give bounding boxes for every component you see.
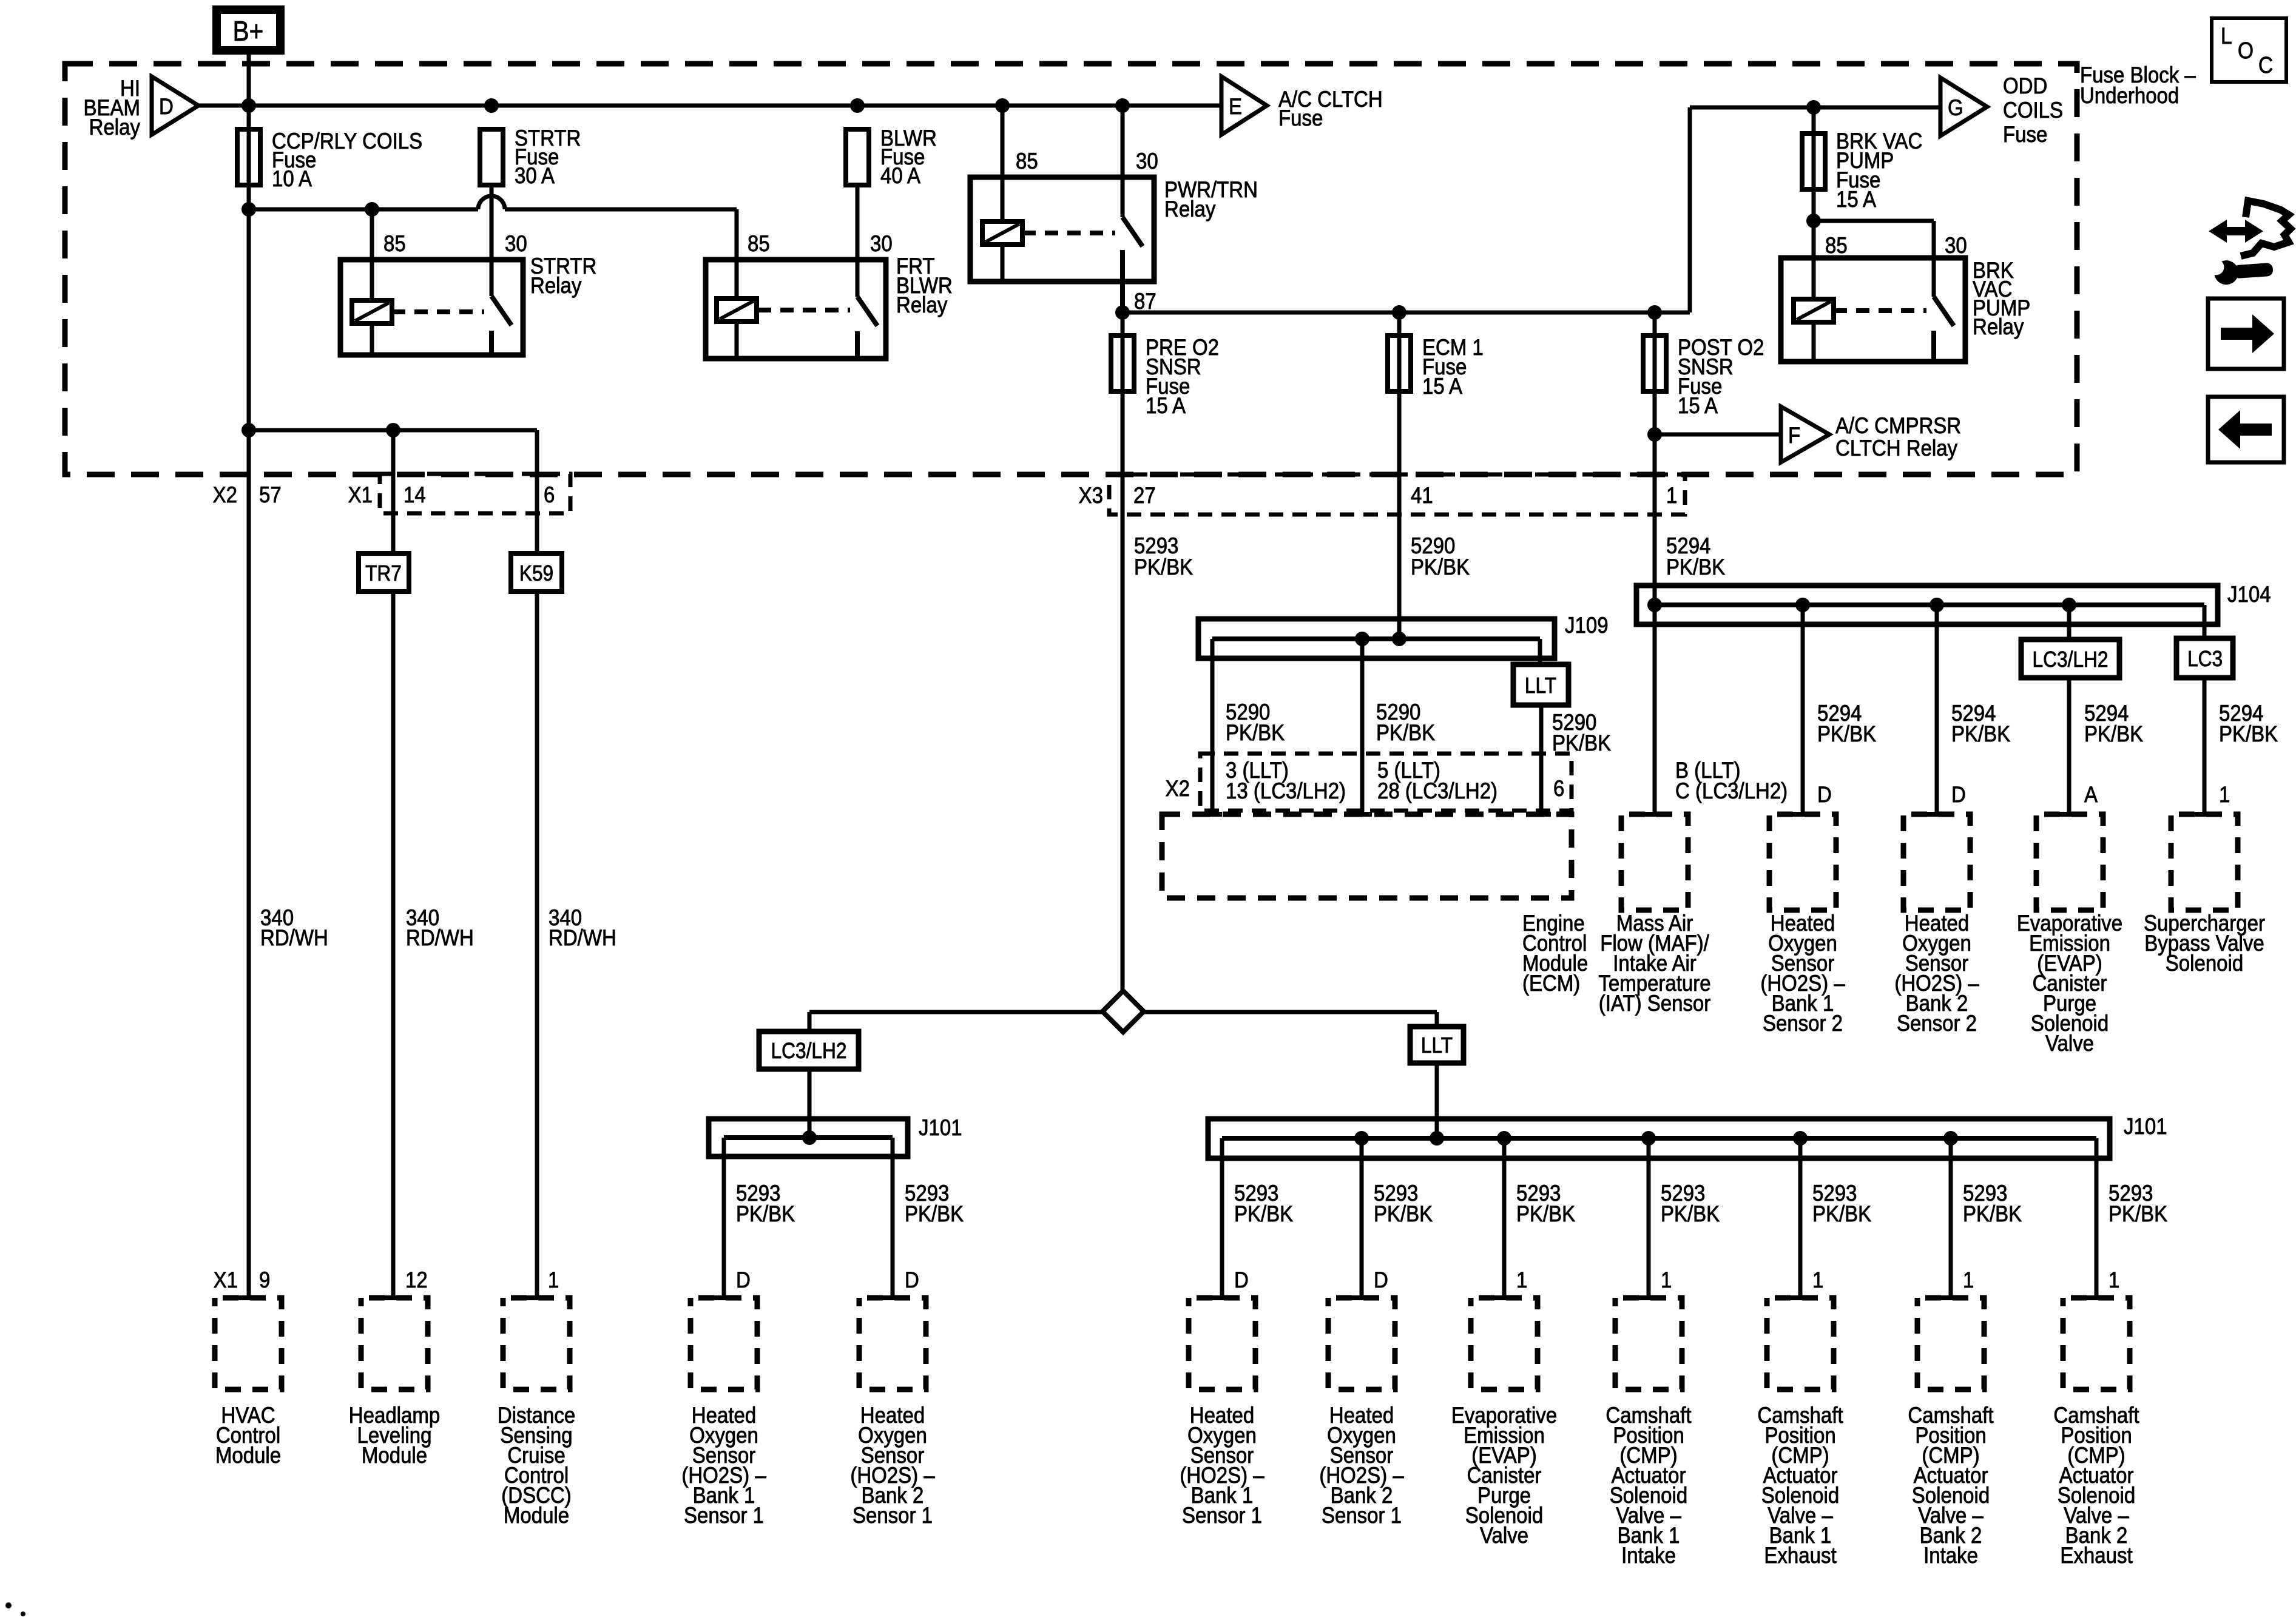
relay STRTR switch (490, 185, 494, 296)
svg-text:PK/BK: PK/BK (1376, 720, 1436, 745)
node J101R LLT feed (1430, 1131, 1444, 1146)
svg-text:Module: Module (504, 1503, 569, 1528)
icon arrow left box (2208, 397, 2284, 462)
connector box bottom col 2967 (1791, 1295, 1810, 1300)
svg-text:PK/BK: PK/BK (2084, 721, 2144, 746)
svg-text:Relay: Relay (1164, 197, 1216, 221)
svg-text:LC3/LH2: LC3/LH2 (771, 1039, 847, 1063)
svg-text:COILS: COILS (2003, 98, 2063, 123)
svg-text:15 A: 15 A (1422, 374, 1462, 399)
connector box bottom col 1193 (714, 1295, 734, 1300)
fuse block underhood dashed border (65, 64, 2077, 474)
relay FRT BLWR switch (856, 185, 860, 297)
connector LC3 box (2176, 638, 2233, 678)
wire LLT to J101 right (1435, 1063, 1439, 1138)
connector box MAF/IAT sensor (1645, 812, 1664, 817)
svg-text:Sensor 1: Sensor 1 (684, 1503, 764, 1528)
svg-text:J101: J101 (919, 1115, 962, 1140)
B+ battery terminal symbol (217, 10, 280, 50)
terminal t-bars ECM pins (1203, 812, 1222, 817)
connector X2 ECM dashed box (1200, 754, 1572, 811)
wire LLT to ECM pin 6 (1539, 705, 1544, 814)
relay PWR/TRN coil-switch dashed link (1022, 231, 1115, 235)
svg-text:30 A: 30 A (515, 163, 555, 188)
wire J101R down 2014 (1220, 1138, 1224, 1298)
node J109 feed (1392, 632, 1406, 646)
wire J101R down 3455 (2095, 1138, 2099, 1298)
svg-text:10 A: 10 A (272, 166, 312, 191)
svg-text:D: D (159, 94, 174, 119)
svg-text:PK/BK: PK/BK (1374, 1201, 1433, 1226)
wire J109 right to LLT (1538, 639, 1542, 664)
svg-text:PK/BK: PK/BK (2109, 1201, 2168, 1226)
connector LC3/LH2 box right (2021, 640, 2119, 678)
svg-text:C: C (2258, 52, 2273, 78)
wire BRK VAC coil feed inside (1812, 258, 1816, 299)
junction block J104 (1636, 586, 2218, 624)
svg-text:LLT: LLT (1525, 673, 1556, 698)
svg-text:A/C CMPRSR: A/C CMPRSR (1835, 413, 1961, 438)
svg-text:RD/WH: RD/WH (406, 925, 474, 950)
connector box bottom col 2717 (1639, 1295, 1658, 1300)
node ODD-BRK VAC fuse (1806, 100, 1821, 115)
connector box bottom col 2244 (1352, 1295, 1371, 1300)
svg-text:30: 30 (1136, 149, 1158, 174)
svg-text:6: 6 (544, 482, 555, 507)
svg-text:1: 1 (1812, 1267, 1823, 1292)
relay PWR/TRN switch (1121, 106, 1125, 217)
relay BRK VAC PUMP box (1781, 258, 1965, 362)
node J101R col 2717 (1641, 1131, 1656, 1146)
node POST O2 - A/C CMPRSR tap (1647, 427, 1662, 442)
node BRK VAC 85-30 split (1806, 214, 1821, 228)
wire K59 column lower (535, 592, 539, 1298)
junction block J101 left (709, 1119, 908, 1156)
svg-text:Sensor 2: Sensor 2 (1763, 1011, 1843, 1036)
svg-text:Intake: Intake (1621, 1543, 1676, 1568)
wire J101L to HO2S b2s1 (891, 1138, 895, 1298)
fuse ECM 1 15A (1388, 336, 1411, 391)
relay BRK VAC coil-switch dashed link (1834, 308, 1926, 313)
svg-text:D: D (736, 1267, 751, 1292)
relay STRTR box (340, 260, 523, 355)
svg-text:(IAT) Sensor: (IAT) Sensor (1599, 991, 1711, 1016)
svg-text:Relay: Relay (530, 273, 582, 298)
svg-text:(ECM): (ECM) (1522, 971, 1580, 996)
svg-text:85: 85 (383, 231, 406, 256)
svg-text:1: 1 (2219, 782, 2230, 807)
svg-text:Fuse: Fuse (1278, 106, 1323, 130)
node J101R col 2244 (1354, 1131, 1369, 1146)
svg-text:1: 1 (1666, 483, 1677, 508)
wire TR7 column lower (391, 592, 396, 1298)
connector box bottom col 884 (527, 1295, 546, 1300)
fuse STRTR 30A (480, 129, 503, 185)
wire LC3/LH2 to J101 left (808, 1069, 812, 1138)
connector X3 dashed box (1109, 474, 1685, 515)
svg-text:Module: Module (362, 1443, 427, 1468)
svg-text:Underhood: Underhood (2080, 83, 2179, 108)
svg-text:1: 1 (548, 1267, 559, 1292)
node J101R col 3215 (1943, 1131, 1958, 1146)
triangle E A/C CLTCH Fuse (1221, 76, 1267, 135)
node feed-B+ column (241, 202, 256, 217)
svg-text:LC3: LC3 (2187, 647, 2223, 671)
node J104 maf (1647, 598, 1662, 612)
node J104 lc3lh2 (2062, 598, 2076, 612)
wire PWR/TRN 85 drop (1001, 106, 1005, 221)
wire J104 right to LC3 box (2203, 605, 2207, 638)
svg-text:Exhaust: Exhaust (1764, 1543, 1836, 1568)
svg-text:O: O (2238, 38, 2254, 63)
wire J101R down 2244 (1360, 1138, 1364, 1298)
svg-text:PK/BK: PK/BK (1661, 1201, 1720, 1226)
connector box bottom col 3215 (1941, 1295, 1960, 1300)
fuse BLWR 40A (846, 129, 869, 185)
connector box bottom col 3455 (2087, 1295, 2106, 1300)
svg-text:Valve: Valve (2045, 1031, 2094, 1056)
svg-text:1: 1 (1963, 1267, 1974, 1292)
svg-text:41: 41 (1411, 483, 1433, 508)
relay PWR/TRN box (970, 177, 1154, 282)
wire K59 column upper (535, 430, 539, 553)
node J104 ho2s b1s2 (1795, 598, 1810, 612)
wire J101R down 3215 (1949, 1138, 1953, 1298)
node J104 ho2s b2s2 (1930, 598, 1944, 612)
connector LC3/LH2 box left (759, 1031, 859, 1069)
svg-text:X3: X3 (1079, 483, 1103, 508)
svg-text:RD/WH: RD/WH (549, 925, 616, 950)
wire LC3/LH2 to EVAP (2067, 678, 2071, 814)
svg-text:85: 85 (748, 231, 770, 256)
relay PWR/TRN coil (982, 221, 1022, 245)
svg-text:PK/BK: PK/BK (1951, 721, 2011, 746)
wire J109 left to ECM pin 3/13 (1210, 639, 1215, 814)
svg-text:15 A: 15 A (1146, 393, 1186, 418)
svg-text:X1: X1 (348, 482, 373, 507)
svg-text:D: D (1234, 1267, 1249, 1292)
svg-text:PK/BK: PK/BK (736, 1201, 795, 1226)
triangle D HI BEAM Relay (152, 76, 198, 135)
node J101L feed (802, 1130, 817, 1145)
svg-text:PK/BK: PK/BK (1234, 1201, 1294, 1226)
connector box supercharger bypass (2195, 812, 2214, 817)
connector box HO2S bank2 sensor2 (1927, 812, 1947, 817)
node left feed on B+ column (241, 423, 256, 437)
module ECM dashed box (1162, 814, 1572, 898)
node bus-B+ (241, 98, 256, 113)
svg-text:PK/BK: PK/BK (1134, 555, 1194, 579)
node bus-BLWR fuse (850, 98, 865, 113)
node left feed TR7 column (386, 423, 400, 437)
svg-text:D: D (1951, 782, 1966, 807)
svg-text:J101: J101 (2124, 1114, 2167, 1139)
connector box bottom col 2479 (1494, 1295, 1514, 1300)
wire up to ODD COILS line (1688, 107, 1692, 312)
svg-text:LLT: LLT (1421, 1033, 1453, 1058)
wire to F triangle (1655, 433, 1781, 437)
fuse PRE O2 SNSR 15A (1111, 336, 1134, 391)
wire J104 to HO2S B1S2 (1801, 605, 1805, 814)
svg-text:CLTCH Relay: CLTCH Relay (1835, 436, 1957, 461)
stray scan marks (5, 1602, 12, 1608)
svg-text:PK/BK: PK/BK (1516, 1201, 1576, 1226)
svg-text:Sensor 1: Sensor 1 (853, 1503, 933, 1528)
connector TR7 box (359, 553, 409, 592)
wire relay 87 distribution (1123, 311, 1690, 315)
svg-text:1: 1 (2109, 1267, 2119, 1292)
fuse POST O2 SNSR 15A (1643, 336, 1666, 391)
wire PRE O2 column to diamond (1121, 312, 1125, 991)
svg-text:J109: J109 (1565, 613, 1609, 638)
node bus-PWR/TRN 85 (995, 98, 1010, 113)
relay FRT BLWR coil-switch dashed link (758, 308, 850, 312)
wire J101R down 2717 (1647, 1138, 1651, 1298)
svg-text:PK/BK: PK/BK (1963, 1201, 2022, 1226)
svg-text:Intake: Intake (1923, 1543, 1978, 1568)
svg-text:Solenoid: Solenoid (2166, 951, 2243, 976)
node J109 pin5 wire (1355, 632, 1369, 646)
svg-text:40 A: 40 A (880, 163, 920, 188)
relay FRT BLWR box (706, 260, 886, 359)
svg-text:28 (LC3/LH2): 28 (LC3/LH2) (1377, 778, 1497, 803)
svg-text:PK/BK: PK/BK (1411, 555, 1470, 579)
wire POST O2 column (1653, 312, 1657, 814)
wire ECM1 column (1397, 312, 1402, 639)
svg-text:85: 85 (1016, 149, 1038, 174)
svg-text:F: F (1788, 423, 1800, 448)
wire STRTR 85 drop (370, 209, 374, 300)
wire B+ down to HVAC (X2-57 / 340 RD/WH column) (247, 53, 251, 1298)
svg-text:J104: J104 (2227, 582, 2271, 607)
svg-text:30: 30 (1945, 233, 1967, 258)
svg-text:15 A: 15 A (1836, 187, 1876, 212)
svg-text:15 A: 15 A (1678, 393, 1718, 418)
connector box bottom col 2014 (1212, 1295, 1232, 1300)
svg-text:D: D (1374, 1267, 1388, 1292)
svg-text:87: 87 (1134, 289, 1156, 314)
junction block J101 right (1208, 1119, 2110, 1158)
svg-text:B+: B+ (233, 16, 264, 47)
relay STRTR coil (352, 300, 392, 323)
svg-text:X1: X1 (214, 1267, 238, 1292)
wire J104 to HO2S B2S2 (1935, 605, 1939, 814)
node 87-PRE O2 (1115, 305, 1130, 320)
svg-text:PK/BK: PK/BK (905, 1201, 964, 1226)
connector LLT box mid (1513, 664, 1568, 705)
svg-text:PK/BK: PK/BK (1817, 721, 1877, 746)
svg-text:K59: K59 (519, 561, 553, 586)
relay BRK VAC coil (1794, 299, 1834, 322)
svg-text:85: 85 (1825, 233, 1848, 258)
svg-text:Sensor 1: Sensor 1 (1182, 1503, 1262, 1528)
fuse BRK VAC PUMP 15A (1802, 133, 1825, 189)
svg-text:Module: Module (215, 1443, 281, 1468)
svg-text:X2: X2 (1166, 776, 1190, 801)
node 87-ECM1 (1392, 305, 1406, 320)
node J101R col 2479 (1497, 1131, 1511, 1146)
svg-text:Relay: Relay (896, 292, 948, 317)
svg-text:PK/BK: PK/BK (2219, 721, 2278, 746)
svg-text:Sensor 1: Sensor 1 (1322, 1503, 1402, 1528)
svg-text:6: 6 (1553, 776, 1564, 801)
wire diamond right branch (1144, 1010, 1437, 1014)
wire CCP fuse to relay coils feed (249, 208, 478, 212)
connector box bottom col 650 (385, 1295, 404, 1300)
icon arrow right box (2208, 299, 2284, 369)
svg-text:G: G (1948, 95, 1963, 120)
wire J109 mid to ECM pin 5/28 (1360, 639, 1365, 814)
svg-text:13 (LC3/LH2): 13 (LC3/LH2) (1226, 778, 1346, 803)
connector box bottom col 409 (238, 1295, 258, 1300)
icon LOC box (2212, 18, 2286, 82)
svg-text:Valve: Valve (1480, 1523, 1528, 1548)
svg-text:TR7: TR7 (365, 561, 402, 586)
svg-text:57: 57 (259, 482, 282, 507)
node bus-STRTR fuse (484, 98, 499, 113)
svg-text:9: 9 (259, 1267, 270, 1292)
wire LC3 to supercharger (2203, 678, 2207, 814)
wire J104 to LC3/LH2 box (2067, 605, 2071, 640)
svg-text:D: D (905, 1267, 919, 1292)
svg-text:D: D (1817, 782, 1832, 807)
svg-text:Exhaust: Exhaust (2060, 1543, 2132, 1568)
triangle G ODD COILS Fuse (1940, 78, 1987, 136)
svg-text:Fuse: Fuse (2003, 122, 2047, 147)
svg-text:C (LC3/LH2): C (LC3/LH2) (1675, 778, 1788, 803)
connector box bottom col 1471 (883, 1295, 902, 1300)
node 87-POST O2 (1647, 305, 1662, 320)
wire J101R down 2967 (1798, 1138, 1803, 1298)
svg-text:L: L (2221, 23, 2232, 49)
svg-text:ODD: ODD (2003, 73, 2047, 98)
svg-text:12: 12 (405, 1267, 428, 1292)
svg-text:X2: X2 (213, 482, 237, 507)
fuse CCP/RLY COILS 10A (237, 129, 260, 185)
wire BRK VAC 30 branch (1814, 219, 1934, 223)
wire feed continues to FRT BLWR coil (505, 208, 737, 212)
svg-text:PK/BK: PK/BK (1666, 555, 1726, 579)
triangle F A/C CMPRSR CLTCH Relay (1781, 407, 1829, 462)
wire J101R down 2479 (1502, 1138, 1507, 1298)
splice diamond (1102, 991, 1144, 1032)
connector box EVAP solenoid (2060, 812, 2079, 817)
relay STRTR coil-switch dashed link (392, 309, 484, 314)
relay FRT BLWR coil (717, 299, 757, 322)
connector LLT box right (1410, 1027, 1464, 1063)
svg-text:14: 14 (403, 482, 426, 507)
svg-text:A: A (2084, 782, 2098, 807)
relay BRK VAC switch (1934, 297, 1954, 326)
svg-text:PK/BK: PK/BK (1226, 720, 1285, 745)
wire J101L to HO2S b1s1 (722, 1138, 726, 1298)
wire hop over STRTR fuse column (478, 196, 505, 209)
svg-text:LC3/LH2: LC3/LH2 (2033, 647, 2109, 672)
connector X1 dashed box (380, 474, 570, 513)
connector box HO2S bank1 sensor2 (1793, 812, 1812, 817)
wire diamond left branch (809, 1010, 1102, 1014)
wire left modules feed (249, 428, 537, 433)
icon tools arrows-wrench (2209, 220, 2263, 243)
junction block J109 (1198, 619, 1555, 658)
svg-text:30: 30 (870, 231, 893, 256)
node feed-STRTR 85 (365, 202, 379, 217)
svg-text:30: 30 (505, 231, 527, 256)
connector K59 box (511, 553, 562, 592)
svg-text:RD/WH: RD/WH (260, 925, 328, 950)
svg-text:E: E (1229, 94, 1242, 119)
svg-text:Relay: Relay (89, 115, 141, 140)
svg-text:1: 1 (1661, 1267, 1672, 1292)
node J101R col 2967 (1793, 1131, 1808, 1146)
svg-text:Sensor 2: Sensor 2 (1897, 1011, 1977, 1036)
wire TR7 column upper (391, 430, 396, 553)
wire BRK VAC fuse column (1812, 107, 1816, 300)
node bus-PWR/TRN 30 (1115, 98, 1130, 113)
svg-text:Relay: Relay (1973, 314, 2024, 339)
svg-text:1: 1 (1516, 1267, 1527, 1292)
svg-text:PK/BK: PK/BK (1812, 1201, 1872, 1226)
main feed bus wire (198, 104, 1221, 108)
svg-text:27: 27 (1133, 483, 1156, 508)
